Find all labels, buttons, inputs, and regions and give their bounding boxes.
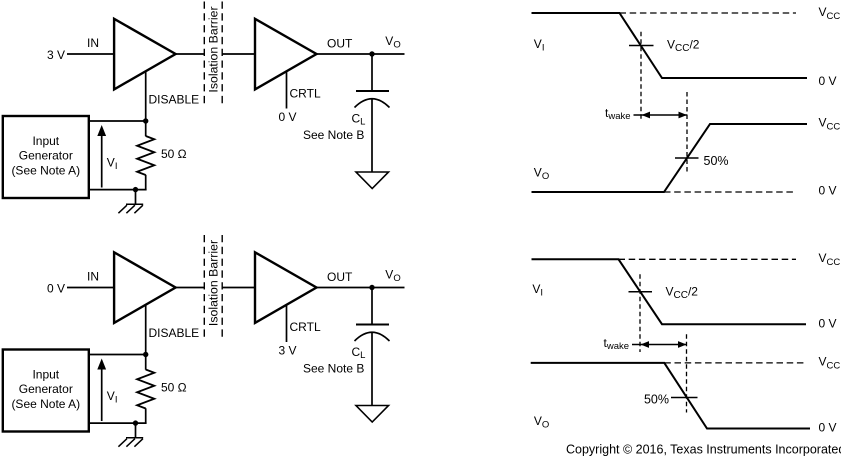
svg-text:Generator: Generator — [19, 149, 73, 163]
svg-text:Isolation Barrier: Isolation Barrier — [207, 240, 221, 326]
svg-text:VO: VO — [385, 268, 400, 284]
wire OUT output (bottom) — [317, 287, 405, 289]
wire CRTL control pin (top) — [286, 72, 288, 109]
wire U3 output to isolation barrier (bottom) — [176, 287, 205, 289]
svg-text:50 Ω: 50 Ω — [161, 147, 187, 161]
resistor R 50ohm top lead (bottom) — [145, 355, 147, 370]
earth ground symbol (top) — [118, 204, 143, 213]
wire generator bottom to resistor (top) — [88, 189, 147, 191]
arrow VI measurement (top) — [101, 133, 103, 188]
wire generator to DISABLE node (bottom) — [88, 354, 146, 356]
wire IN input (top) — [67, 53, 114, 55]
isolation barrier left dashed line (top) — [203, 2, 205, 104]
dashed VCC level line for VI (bottom diagram) — [619, 258, 797, 260]
waveform VO trace (bottom diagram) — [531, 363, 810, 429]
wire output node to capacitor (top) — [371, 54, 373, 90]
svg-text:Copyright © 2016, Texas Instru: Copyright © 2016, Texas Instruments Inco… — [566, 443, 841, 457]
vertical dashed cursor at VI crossing (bottom diagram) — [639, 274, 641, 352]
svg-text:VI: VI — [534, 37, 545, 54]
svg-text:CRTL: CRTL — [290, 320, 321, 334]
wire ground stub (top) — [135, 190, 137, 205]
waveform VI trace (bottom diagram) — [532, 259, 807, 324]
tick mark VCC/2 crossing (bottom diagram) — [629, 291, 653, 293]
svg-text:Generator: Generator — [19, 382, 73, 396]
wire U1 output to isolation barrier (top) — [176, 53, 205, 55]
svg-text:VO: VO — [534, 165, 549, 182]
twake dimension arrow (bottom diagram) — [632, 344, 687, 346]
capacitor CL top plate (top) — [356, 90, 389, 92]
wire ground stub (bottom) — [135, 423, 137, 438]
capacitor CL curved plate (bottom) — [355, 332, 390, 341]
svg-text:VCC/2: VCC/2 — [667, 37, 700, 54]
svg-text:See Note B: See Note B — [303, 362, 364, 376]
vertical dashed cursor at VO crossing (top diagram) — [686, 92, 688, 172]
isolation barrier right dashed line (top) — [221, 2, 223, 104]
isolation barrier left dashed line (bottom) — [203, 235, 205, 337]
wire OUT output (top) — [317, 53, 405, 55]
wire output node to capacitor (bottom) — [371, 288, 373, 324]
svg-text:VO: VO — [534, 414, 549, 431]
svg-text:DISABLE: DISABLE — [149, 93, 200, 107]
node junction DISABLE dot (top) — [143, 118, 148, 123]
svg-text:VO: VO — [385, 34, 400, 50]
wire IN input (bottom) — [67, 287, 114, 289]
svg-text:VCC: VCC — [819, 355, 841, 372]
node junction output dot (bottom) — [369, 285, 374, 290]
tick mark 50 percent crossing (top diagram) — [675, 157, 699, 159]
svg-text:CRTL: CRTL — [290, 87, 321, 101]
resistor R 50ohm bottom lead (bottom) — [145, 408, 147, 423]
capacitor CL curved plate (top) — [355, 99, 390, 108]
input generator box (bottom) — [3, 350, 89, 432]
svg-text:0 V: 0 V — [819, 74, 837, 88]
node junction ground dot (top) — [133, 187, 138, 192]
wire CRTL control pin (bottom) — [286, 305, 288, 342]
wire generator to DISABLE node (top) — [88, 120, 146, 122]
twake dimension arrow (top diagram) — [634, 114, 688, 116]
svg-text:CL: CL — [352, 345, 366, 361]
svg-text:Isolation Barrier: Isolation Barrier — [207, 6, 221, 92]
svg-text:3 V: 3 V — [47, 48, 65, 62]
earth ground symbol (bottom) — [118, 438, 143, 447]
svg-text:0 V: 0 V — [819, 316, 837, 330]
svg-text:50%: 50% — [644, 393, 669, 407]
dashed 0V level line for VO (top diagram) — [664, 191, 796, 193]
node junction DISABLE dot (bottom) — [143, 352, 148, 357]
buffer U2 (top, output-side amplifier triangle) — [255, 19, 317, 90]
wire DISABLE from U1 (top) — [145, 71, 147, 121]
svg-text:3 V: 3 V — [278, 344, 296, 358]
svg-text:(See Note A): (See Note A) — [11, 397, 80, 411]
tick mark 50 percent crossing (bottom diagram) — [671, 397, 698, 399]
svg-text:0 V: 0 V — [47, 282, 65, 296]
node junction ground dot (bottom) — [133, 420, 138, 425]
ground triangle below CL (top) — [356, 172, 389, 189]
dashed VCC level line for VO (bottom diagram) — [664, 362, 804, 364]
svg-text:OUT: OUT — [327, 37, 353, 51]
resistor R 50ohm zigzag (top) — [137, 136, 154, 175]
waveform VI trace (top diagram) — [532, 13, 808, 78]
svg-text:See Note B: See Note B — [303, 128, 364, 142]
wire isolation barrier to U2 input (top) — [222, 53, 254, 55]
wire generator bottom to resistor (bottom) — [88, 422, 147, 424]
svg-text:VI: VI — [107, 389, 118, 406]
waveform VO trace (top diagram) — [532, 124, 808, 192]
svg-text:(See Note A): (See Note A) — [11, 163, 80, 177]
isolation barrier right dashed line (bottom) — [221, 235, 223, 337]
svg-text:VI: VI — [107, 156, 118, 173]
svg-text:50 Ω: 50 Ω — [161, 381, 187, 395]
svg-text:0 V: 0 V — [819, 184, 837, 198]
svg-text:OUT: OUT — [327, 270, 353, 284]
vertical dashed cursor at VO crossing (bottom diagram) — [686, 334, 688, 412]
node junction output dot (top) — [369, 51, 374, 56]
wire isolation barrier to U4 input (bottom) — [222, 287, 254, 289]
svg-text:VCC/2: VCC/2 — [666, 284, 699, 301]
svg-text:0 V: 0 V — [278, 110, 296, 124]
svg-text:CL: CL — [352, 111, 366, 127]
svg-text:IN: IN — [87, 36, 99, 50]
svg-text:VCC: VCC — [819, 251, 841, 268]
buffer U3 (bottom, input-side amplifier triangle) — [114, 252, 176, 323]
tick mark VCC/2 crossing (top diagram) — [629, 45, 654, 47]
buffer U1 (top, input-side amplifier triangle) — [114, 19, 176, 90]
dashed VCC level line for VI (top diagram) — [620, 12, 797, 14]
svg-text:Input: Input — [32, 134, 59, 148]
resistor R 50ohm bottom lead (top) — [145, 175, 147, 190]
svg-text:VCC: VCC — [819, 5, 841, 22]
svg-text:twake: twake — [604, 336, 630, 352]
svg-text:VI: VI — [532, 282, 543, 299]
resistor R 50ohm zigzag (bottom) — [137, 370, 154, 409]
svg-text:VCC: VCC — [819, 116, 841, 133]
svg-text:twake: twake — [605, 106, 631, 122]
svg-text:50%: 50% — [704, 154, 729, 168]
buffer U4 (bottom, output-side amplifier triangle) — [255, 252, 317, 323]
svg-text:IN: IN — [87, 270, 99, 284]
input generator box (top) — [3, 116, 89, 198]
svg-text:0 V: 0 V — [819, 420, 837, 434]
svg-text:Input: Input — [32, 368, 59, 382]
wire capacitor to ground (bottom) — [371, 333, 373, 406]
ground triangle below CL (bottom) — [356, 406, 389, 423]
svg-text:DISABLE: DISABLE — [149, 326, 200, 340]
arrow VI measurement (bottom) — [101, 367, 103, 422]
wire capacitor to ground (top) — [371, 99, 373, 172]
capacitor CL top plate (bottom) — [356, 324, 389, 326]
vertical dashed cursor at VI crossing (top diagram) — [640, 32, 642, 121]
wire DISABLE from U3 (bottom) — [145, 305, 147, 355]
resistor R 50ohm top lead (top) — [145, 121, 147, 136]
